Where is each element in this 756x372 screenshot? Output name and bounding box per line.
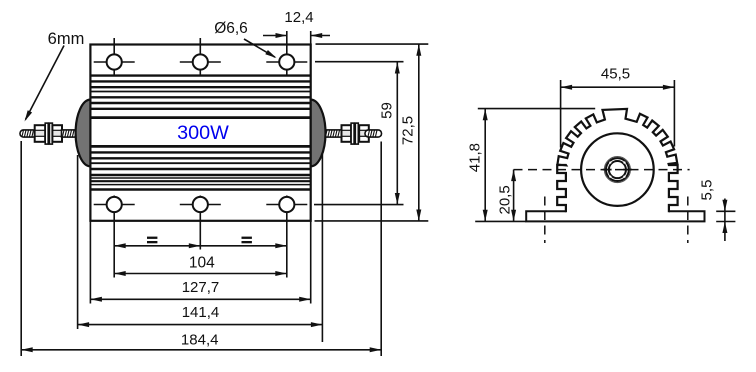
left terminal nut A — [35, 125, 46, 142]
left terminal washers — [45, 123, 48, 144]
extension line dome right — [321, 154, 323, 342]
left inner stud — [62, 130, 79, 137]
extension lines for 59 — [315, 61, 404, 63]
svg-text:Ø6,6: Ø6,6 — [214, 20, 248, 37]
hub ring ticks — [609, 161, 611, 163]
left terminal threaded stud — [20, 130, 37, 137]
resistor body outline (front view) — [90, 45, 310, 221]
left end dome — [76, 100, 91, 167]
leader arrow 6mm — [26, 46, 65, 120]
extension line body right top — [310, 31, 312, 45]
bottom mounting hole 2 — [180, 204, 221, 206]
dashed vertical hole center line left — [544, 197, 546, 244]
right terminal threaded stud — [365, 130, 382, 137]
finned housing profile (side view) — [557, 109, 677, 212]
extension line stud left tip — [20, 141, 22, 356]
right inner stud — [324, 130, 343, 137]
svg-text:127,7: 127,7 — [182, 279, 220, 296]
svg-text:20,5: 20,5 — [496, 185, 513, 214]
side view base plate — [526, 211, 704, 221]
svg-text:72,5: 72,5 — [400, 116, 417, 145]
top mounting hole 2 — [180, 61, 221, 63]
heatsink fin lines — [90, 74, 310, 76]
hub crosshair — [603, 169, 612, 171]
extension line stud right tip — [380, 142, 382, 357]
right terminal nut B — [359, 125, 369, 142]
right terminal nut A — [342, 125, 352, 142]
core circle (side view) — [581, 133, 654, 206]
svg-text:300W: 300W — [177, 122, 229, 144]
svg-text:141,4: 141,4 — [182, 304, 220, 321]
center hub ring — [604, 157, 630, 183]
svg-text:5,5: 5,5 — [699, 180, 716, 201]
svg-text:45,5: 45,5 — [601, 66, 630, 83]
extension lines for 72,5 — [316, 43, 429, 45]
top mounting hole 1 — [94, 61, 135, 63]
right end dome — [311, 100, 326, 167]
svg-text:6mm: 6mm — [48, 30, 85, 48]
left terminal nut B — [52, 125, 62, 142]
dashed horizontal center line (side view) — [514, 169, 690, 171]
svg-text:12,4: 12,4 — [284, 9, 313, 26]
extension line dome left — [77, 155, 79, 329]
bottom mounting hole 1 — [94, 204, 135, 206]
extension line body right — [310, 221, 312, 304]
svg-text:59: 59 — [379, 102, 396, 119]
dashed vertical hole center line right — [687, 197, 689, 244]
extension line body left — [89, 221, 91, 304]
top mounting hole 3 — [266, 61, 307, 63]
leader arrow dia 6,6 — [244, 39, 275, 57]
svg-text:104: 104 — [189, 255, 215, 272]
right terminal washers — [351, 123, 354, 144]
equal-spacing dimension line — [147, 237, 157, 239]
bottom mounting hole 3 — [266, 204, 307, 206]
svg-text:41,8: 41,8 — [467, 143, 484, 172]
svg-text:184,4: 184,4 — [181, 332, 219, 349]
